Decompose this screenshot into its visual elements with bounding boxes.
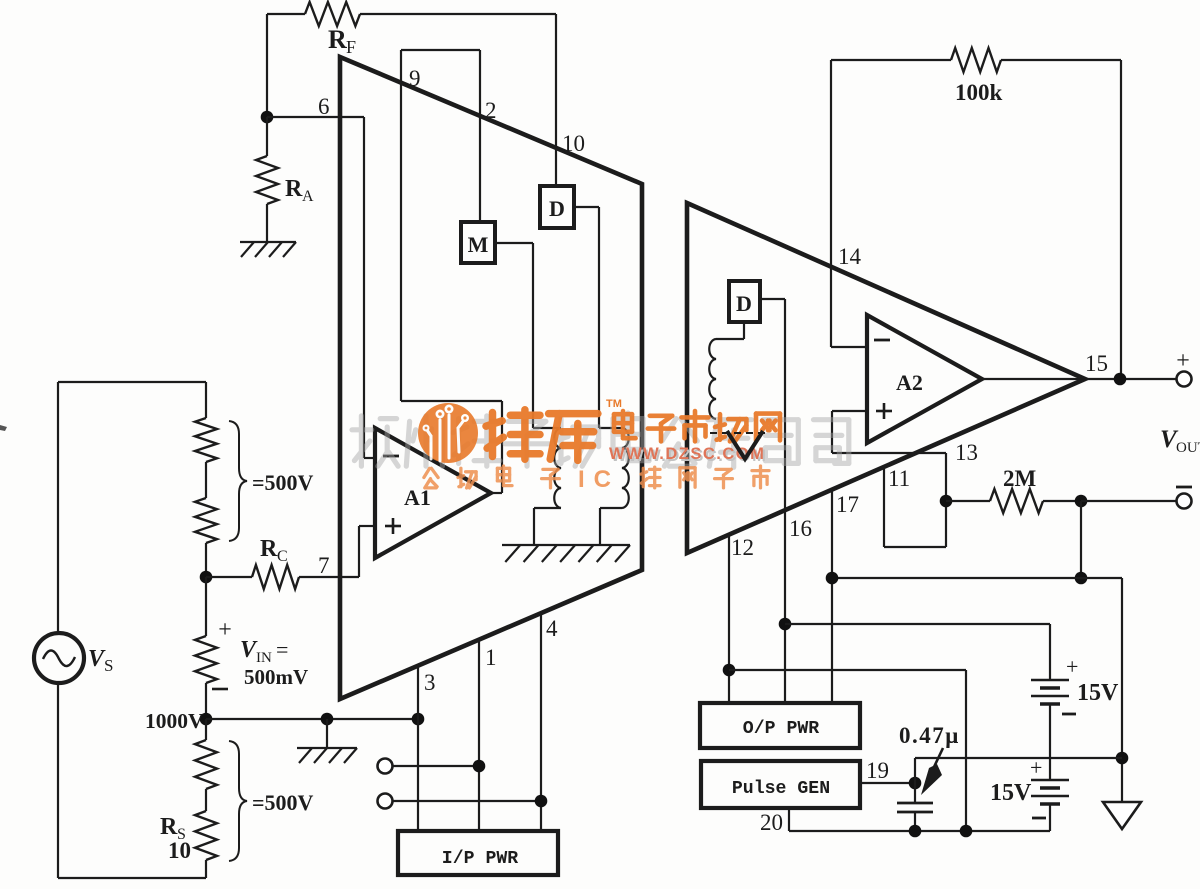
svg-text:+: +	[1066, 654, 1078, 679]
op-amp A1	[375, 428, 491, 558]
coil 2	[622, 428, 629, 508]
wire pin 4	[540, 613, 542, 831]
wire plus net horizontal	[832, 452, 946, 454]
wire VOUT- column down	[1080, 501, 1082, 578]
svg-text:O/P PWR: O/P PWR	[743, 719, 819, 739]
wire 1000V node to RS chain	[205, 719, 207, 740]
svg-text:20: 20	[760, 810, 783, 835]
svg-text:10: 10	[168, 838, 191, 863]
battery 15V lower	[1049, 758, 1051, 780]
coil 1 bottom jog	[534, 507, 561, 509]
coil 1 top jog	[533, 427, 561, 429]
wire between R1 R2	[205, 462, 207, 498]
watermark gray char 3	[505, 421, 549, 466]
wire pin7 up to A1 plus	[358, 526, 360, 577]
modulator box M	[461, 222, 495, 263]
wire pin 20	[788, 808, 790, 831]
svg-text:R: R	[285, 176, 303, 202]
svg-text:16: 16	[789, 516, 812, 541]
svg-text:A: A	[302, 188, 314, 205]
svg-text:R: R	[260, 536, 278, 562]
ground under RA	[240, 241, 296, 243]
wire VS bottom to divider bottom rail	[57, 683, 59, 878]
label - battery2	[1032, 817, 1046, 820]
svg-text:=: =	[276, 637, 288, 662]
watermark orange line2	[424, 468, 438, 488]
watermark gray char 4	[554, 419, 599, 467]
scan artifact left edge	[0, 425, 7, 431]
box I/P PWR	[398, 831, 558, 875]
resistor 2M	[990, 489, 1043, 513]
wire battery rail	[915, 757, 1122, 759]
coil 2 top jog	[599, 427, 622, 429]
wire to VOUT- terminal	[1081, 500, 1184, 502]
node pin12 tap	[723, 664, 736, 677]
input terminal upper	[378, 759, 393, 774]
demod V symbol	[727, 431, 763, 459]
node 1000V	[200, 713, 213, 726]
svg-text:9: 9	[409, 66, 421, 91]
wire A2 output to terminal	[982, 378, 1184, 380]
svg-text:M: M	[468, 232, 489, 257]
resistor VIN	[195, 636, 217, 683]
wire D out	[574, 206, 599, 208]
node pin 19 cap	[909, 777, 922, 790]
watermark gray char 5	[613, 413, 649, 461]
wire D2 bottom to coil	[743, 322, 745, 339]
isolation amplifier 2 body	[687, 203, 1085, 553]
resistor RC	[252, 565, 299, 589]
label - battery1	[1062, 713, 1076, 716]
svg-text:IN: IN	[256, 650, 272, 666]
wire feedback right vertical	[1120, 60, 1122, 379]
wire 2M right	[1043, 500, 1081, 502]
box O/P PWR	[700, 703, 860, 748]
watermark big orange chars	[486, 410, 540, 459]
wire feedback top rail right	[1001, 59, 1121, 61]
wire RF rail right	[360, 13, 556, 15]
svg-text:12: 12	[731, 535, 754, 560]
battery 15V upper	[1031, 679, 1069, 682]
wire R2 to RC node	[205, 543, 207, 577]
wire pin 2 vertical to M box	[479, 50, 481, 222]
watermark gray char 9	[814, 420, 849, 464]
wire node6 to RA	[266, 117, 268, 156]
node pin16 power tap	[779, 618, 792, 631]
box Pulse GEN	[701, 761, 860, 808]
svg-text:6: 6	[318, 94, 330, 119]
wire RF right down to D box	[555, 14, 557, 186]
watermark gray char 0	[352, 416, 398, 466]
A1 minus sign	[383, 455, 399, 458]
node pin17 rail right	[1075, 572, 1088, 585]
resistor divider R1	[195, 418, 217, 462]
wire RF rail left	[267, 13, 305, 15]
wire pin 3	[417, 666, 419, 831]
label - VIN	[212, 688, 228, 691]
wire pin 13 vertical	[945, 453, 947, 547]
wire VS top to divider top rail	[57, 382, 59, 633]
svg-text:17: 17	[836, 492, 859, 517]
node VOUT- column	[1075, 495, 1088, 508]
svg-text:10: 10	[562, 131, 585, 156]
svg-text:7: 7	[318, 553, 330, 578]
svg-text:14: 14	[838, 244, 862, 269]
demodulator box D iso1	[540, 186, 574, 228]
node RC tap	[200, 571, 213, 584]
node pin17 rail left	[826, 572, 839, 585]
wire pin 17 vertical	[831, 490, 833, 703]
coil 3	[709, 339, 716, 419]
svg-text:R: R	[160, 814, 178, 840]
annotation arrow to cap	[934, 748, 943, 767]
svg-text:+: +	[1176, 348, 1190, 374]
voltage source VS	[34, 633, 84, 683]
wire pin12 tap to cap column	[729, 669, 966, 671]
wire cap top column	[914, 758, 916, 803]
wire A2 minus input	[831, 346, 867, 348]
svg-text:15: 15	[1085, 351, 1108, 376]
svg-text:F: F	[346, 37, 356, 57]
svg-text:15V: 15V	[1077, 680, 1119, 706]
input terminal lower	[378, 794, 393, 809]
ground inside iso1	[502, 544, 630, 546]
svg-text:3: 3	[424, 670, 436, 695]
wire VIN to 1000V node	[205, 683, 207, 719]
brace =500V lower	[229, 741, 247, 861]
node cap column rail	[960, 825, 973, 838]
watermark gray char 2	[453, 416, 500, 466]
wire A2 plus input	[832, 410, 867, 412]
ground at 1000V rail	[326, 719, 328, 748]
svg-text:TM: TM	[606, 398, 622, 410]
wire pin 12 vertical	[728, 535, 730, 703]
watermark gray char 6	[662, 419, 697, 467]
svg-text:11: 11	[888, 466, 910, 491]
wire node6 to A1 minus	[267, 116, 364, 118]
svg-text:IC: IC	[578, 466, 620, 493]
watermark gray char 7	[708, 420, 752, 468]
node 6	[261, 111, 274, 124]
wire pin 9 vertical	[400, 50, 402, 401]
svg-text:I/P PWR: I/P PWR	[442, 849, 518, 869]
wire cap bottom	[914, 812, 916, 831]
svg-text:500mV: 500mV	[244, 665, 308, 689]
wire pin 1	[478, 640, 480, 831]
svg-text:13: 13	[955, 440, 978, 465]
svg-text:=500V: =500V	[252, 470, 314, 495]
resistor 100k	[951, 48, 1001, 72]
svg-text:A2: A2	[896, 370, 923, 395]
resistor RS lower	[195, 811, 217, 860]
A2 plus sign	[876, 410, 892, 413]
wire RS to bottom rail	[205, 860, 207, 878]
A2 minus sign	[874, 339, 890, 342]
resistor RA	[256, 156, 278, 204]
svg-text:R: R	[328, 25, 347, 54]
svg-text:+: +	[1030, 755, 1042, 780]
isolation amplifier 1 body	[340, 57, 642, 699]
svg-text:Pulse GEN: Pulse GEN	[732, 779, 830, 799]
resistor divider R2	[195, 498, 217, 543]
output terminal minus	[1177, 494, 1192, 509]
svg-text:D: D	[736, 291, 752, 316]
wire pin 11 loop	[884, 546, 946, 548]
coil 1	[554, 428, 561, 508]
ground triangle	[1103, 802, 1141, 829]
svg-text:15V: 15V	[990, 780, 1032, 806]
svg-text:2M: 2M	[1003, 466, 1037, 491]
svg-text:S: S	[104, 656, 113, 675]
output terminal plus	[1177, 372, 1192, 387]
node 2M tap	[940, 495, 953, 508]
wire terminal to pin4	[392, 800, 541, 802]
svg-text:1000V: 1000V	[145, 709, 204, 733]
coil 2 bottom jog	[600, 507, 622, 509]
wire node to VIN resistor	[205, 577, 207, 636]
node pin3 column	[412, 713, 425, 726]
label - output	[1176, 486, 1192, 489]
wire ground drop right	[1121, 578, 1123, 802]
node cap bottom	[909, 825, 922, 838]
wire feedback top rail left	[831, 59, 951, 61]
wire 2M left	[946, 500, 990, 502]
wire divider top	[205, 382, 207, 418]
watermark gray char 1	[406, 416, 442, 466]
demodulator box D iso2	[729, 281, 760, 322]
capacitor 0.47u	[897, 802, 933, 805]
svg-text:=500V: =500V	[252, 790, 314, 815]
svg-text:100k: 100k	[955, 80, 1003, 105]
wire 1000V rail	[206, 718, 418, 720]
wire pin 19	[860, 782, 915, 784]
op-amp A2	[867, 315, 982, 443]
node pin1 terminal	[473, 760, 486, 773]
wire RF left down to node 6	[266, 14, 268, 117]
svg-text:C: C	[277, 548, 288, 565]
node pin4 terminal	[535, 795, 548, 808]
wire node to RC	[206, 576, 252, 578]
resistor RS upper	[195, 740, 217, 789]
node battery rail	[1116, 752, 1129, 765]
svg-text:+: +	[218, 617, 232, 643]
wire terminal to pin1	[392, 765, 479, 767]
watermark logo circle	[418, 403, 478, 463]
wire D2 out to pin16	[760, 298, 785, 300]
watermark gray char 8	[763, 420, 798, 464]
svg-text:0.47μ: 0.47μ	[899, 723, 960, 748]
svg-text:4: 4	[546, 616, 558, 641]
wire 9-2 top rail	[401, 49, 480, 51]
svg-text:19: 19	[866, 758, 889, 783]
wire pin 14 vertical	[830, 60, 832, 347]
wire pin16 to battery1	[785, 623, 1050, 625]
svg-text:2: 2	[485, 98, 497, 123]
wire in RS chain	[205, 789, 207, 811]
node pin 15	[1114, 373, 1127, 386]
wire pin17 rail	[832, 577, 1122, 579]
wire RA to ground	[266, 204, 268, 242]
svg-text:D: D	[549, 196, 565, 221]
svg-text:OUT: OUT	[1176, 440, 1200, 456]
svg-text:1: 1	[485, 645, 497, 670]
A1 plus sign	[385, 525, 401, 528]
resistor RF	[305, 2, 360, 26]
brace =500V upper	[229, 421, 247, 541]
wire RC to pin 7	[299, 576, 359, 578]
wire A1 output feedback	[401, 400, 502, 402]
node ground stub	[321, 713, 334, 726]
wire M out	[495, 242, 533, 244]
